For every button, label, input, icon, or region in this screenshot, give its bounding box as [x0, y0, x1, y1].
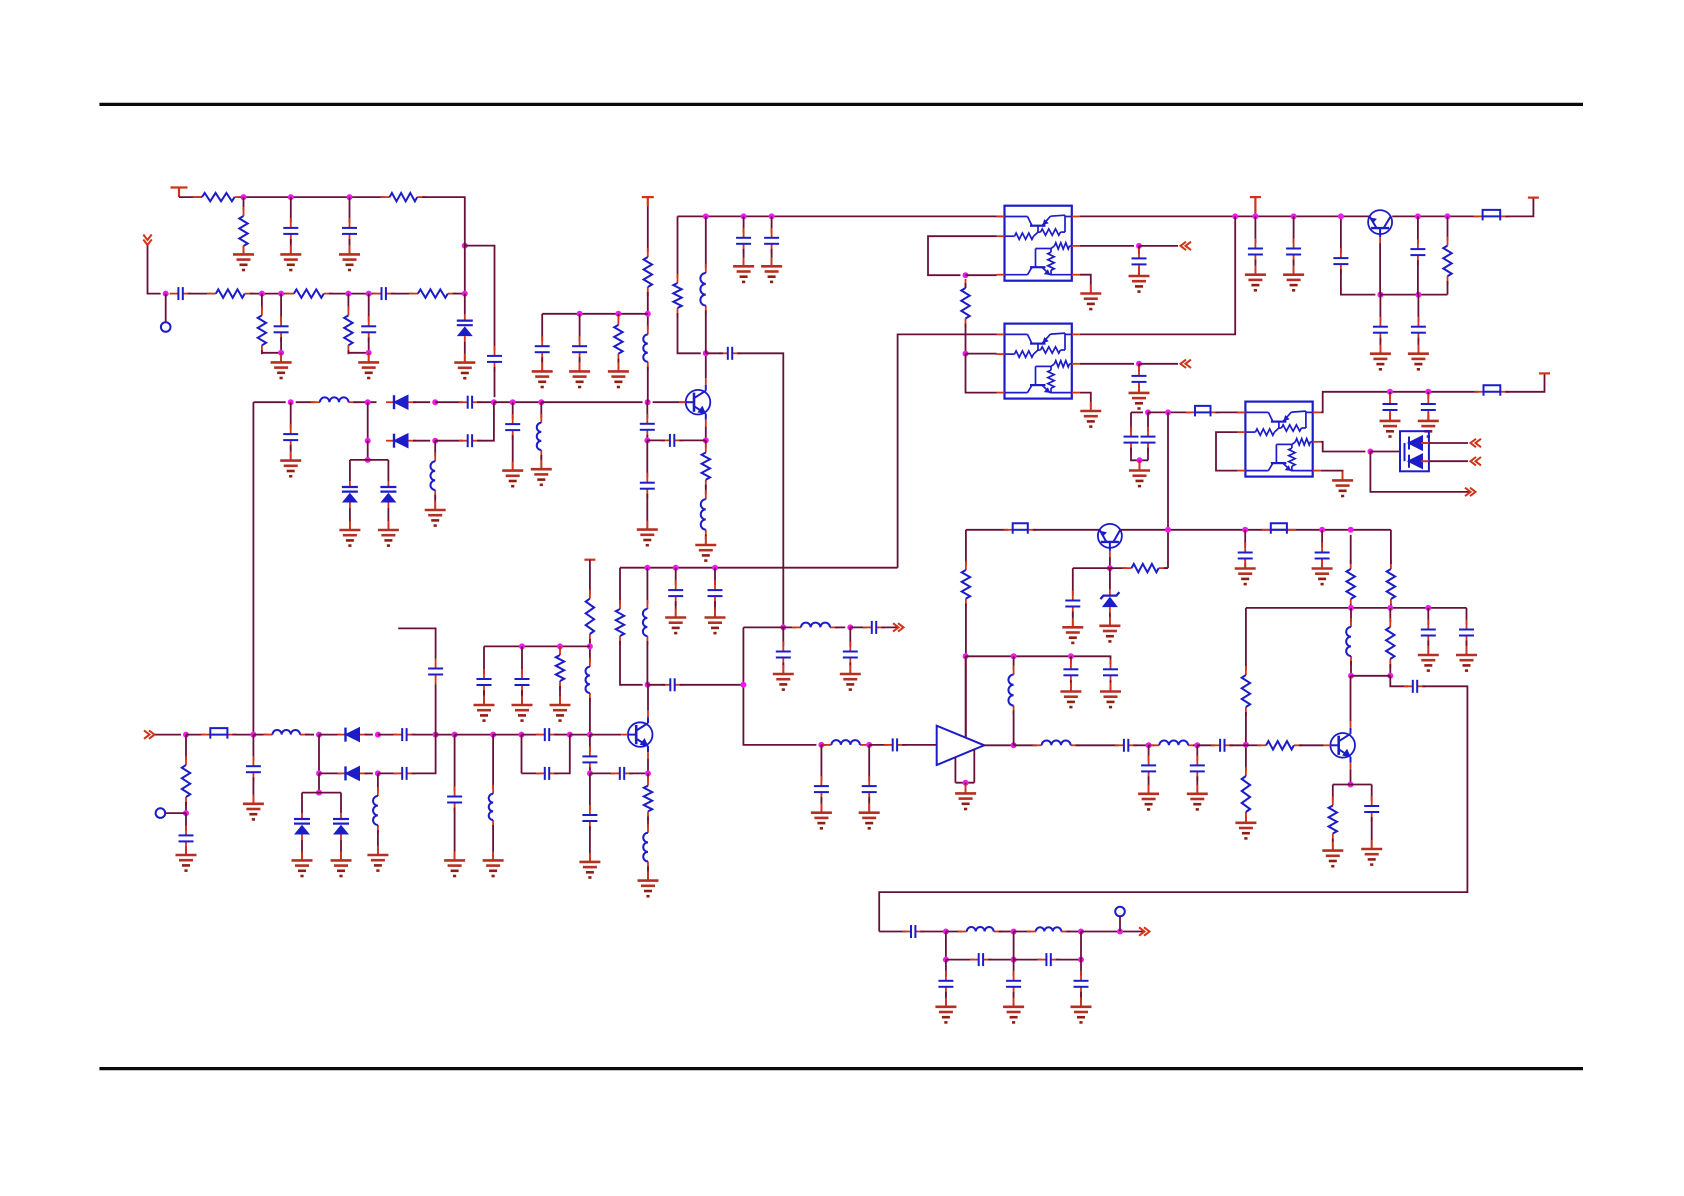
wire: [1321, 471, 1343, 481]
op-amp U4: [937, 726, 985, 765]
wire: [1429, 442, 1468, 444]
ground: [665, 609, 686, 634]
wire: [261, 294, 263, 311]
capacitor C48: [862, 776, 877, 802]
wire: [1254, 260, 1256, 275]
wire: [835, 626, 845, 628]
capacitor C29: [1141, 427, 1156, 453]
wire: [705, 440, 707, 447]
wire: [302, 792, 341, 794]
capacitor C17: [719, 347, 741, 360]
wire: [820, 797, 822, 813]
junction: [433, 732, 439, 738]
ground: [1408, 345, 1429, 370]
ground: [1100, 683, 1121, 708]
dual digital transistor U3: [1237, 402, 1320, 477]
capacitor C70: [1006, 971, 1021, 997]
capacitor C6: [274, 316, 289, 342]
wire: [1138, 387, 1140, 393]
wire: [965, 783, 967, 794]
wire: [965, 656, 967, 737]
resistor R23: [586, 590, 594, 643]
junction: [1011, 929, 1017, 935]
wire: [280, 294, 282, 322]
capacitor C4: [170, 287, 192, 300]
capacitor C33: [1238, 543, 1253, 569]
wire: [492, 735, 494, 789]
wire: [1013, 656, 1015, 669]
capacitor C45: [662, 678, 684, 691]
wire: [620, 641, 643, 685]
ground: [512, 696, 533, 721]
wire collector Q5: [647, 685, 649, 711]
off-page connector: [1181, 360, 1192, 368]
ground: [773, 665, 794, 690]
capacitor C18: [736, 228, 751, 254]
wire: [243, 197, 245, 211]
wire: [349, 508, 351, 530]
junction: [1232, 213, 1238, 219]
wire: [705, 485, 707, 495]
wire: [705, 535, 707, 545]
capacitor C16: [572, 336, 587, 362]
wire collector Q2: [1379, 243, 1381, 295]
wire: [1293, 260, 1295, 275]
capacitor C39: [708, 580, 723, 606]
varactor D5: [380, 481, 396, 508]
junction: [316, 732, 322, 738]
junction: [432, 438, 438, 444]
ground: [1062, 618, 1083, 643]
wire: [1417, 295, 1419, 322]
wire: [966, 353, 997, 355]
ground: [695, 536, 716, 561]
ground: [569, 362, 590, 387]
junction: [538, 399, 544, 405]
wire: [368, 337, 370, 353]
wire: [589, 826, 591, 862]
junction: [288, 399, 294, 405]
capacitor C13: [661, 434, 683, 447]
junction: [163, 291, 169, 297]
wire: [1131, 411, 1143, 413]
resistor R25: [1257, 741, 1303, 749]
wire: [1147, 412, 1149, 431]
wire: [629, 772, 648, 774]
wire bus: [1321, 392, 1479, 413]
wire: [559, 686, 561, 705]
ground: [1312, 560, 1333, 585]
inductor L11: [822, 740, 869, 745]
diode D8: [338, 728, 368, 742]
wire: [522, 772, 540, 774]
power flag VCC5: [1539, 372, 1550, 374]
wire: [378, 772, 397, 774]
ground: [243, 795, 264, 820]
fuse F4: [1004, 523, 1037, 534]
wire: [1014, 931, 1031, 933]
wire: [988, 959, 1014, 961]
wire: [1245, 712, 1247, 771]
wire: [165, 812, 186, 814]
ground: [811, 804, 832, 829]
junction: [1425, 389, 1431, 395]
wire: [1106, 656, 1111, 664]
wire: [1417, 260, 1419, 295]
ground: [733, 257, 754, 282]
wire: [435, 685, 437, 735]
junction: [1377, 292, 1383, 298]
ground: [1080, 285, 1101, 310]
resistor R1: [193, 193, 244, 201]
wire: [1196, 776, 1198, 793]
wire: [570, 734, 590, 736]
wire: [391, 293, 413, 295]
junction: [183, 810, 189, 816]
capacitor C49: [1115, 739, 1137, 752]
wire: [250, 293, 289, 295]
wire: [455, 734, 494, 736]
black title-block border bottom: [99, 1067, 1583, 1070]
resistor R9: [702, 444, 710, 489]
junction: [241, 194, 247, 200]
wire: [1379, 295, 1381, 322]
capacitor C42: [863, 621, 885, 634]
wire: [589, 698, 591, 735]
junction: [278, 350, 284, 356]
wire: [1133, 744, 1148, 746]
wire: [290, 197, 292, 223]
wire: [1070, 656, 1072, 664]
wire collector Q4: [1350, 676, 1352, 722]
ground: [705, 609, 726, 634]
ground: [367, 846, 388, 871]
wire: [706, 352, 723, 354]
wire: [165, 294, 167, 323]
capacitor C57: [536, 728, 558, 741]
capacitor C69: [938, 971, 953, 997]
wire: [946, 959, 974, 961]
junction: [1078, 957, 1084, 963]
wire: [232, 734, 253, 736]
junction: [1117, 929, 1123, 935]
wire: [554, 735, 570, 774]
capacitor C68: [1038, 953, 1060, 966]
wire: [350, 459, 389, 461]
wire: [253, 734, 267, 736]
wire: [945, 932, 947, 960]
wire: [329, 293, 377, 295]
wire: [1244, 564, 1246, 569]
wire: [1193, 744, 1197, 746]
ground: [1235, 560, 1256, 585]
wire: [253, 401, 285, 403]
resistor R17: [1347, 560, 1355, 608]
wire: [185, 802, 187, 813]
wire: [1299, 744, 1324, 746]
wire: [1080, 992, 1082, 1007]
wire: [240, 196, 385, 198]
inductor L1: [311, 397, 358, 402]
wire: [464, 342, 466, 363]
wire: [378, 734, 397, 736]
wire: [705, 216, 707, 268]
wire: [898, 334, 997, 567]
capacitor C51: [1141, 755, 1156, 781]
varactor D11: [333, 813, 349, 840]
junction: [703, 437, 709, 443]
junction: [365, 457, 371, 463]
diode D2: [386, 395, 416, 409]
capacitor C24: [1333, 248, 1348, 274]
wire: [512, 402, 514, 419]
junction: [1425, 605, 1431, 611]
wire: [301, 793, 303, 813]
wire: [646, 494, 648, 530]
wire: [1380, 294, 1447, 296]
ground: [331, 851, 352, 876]
capacitor C5: [373, 287, 395, 300]
capacitor C11: [505, 414, 520, 440]
wire vertical: [1167, 412, 1169, 568]
inductor L20: [1027, 927, 1071, 931]
wire: [1056, 959, 1081, 961]
wire: [1013, 992, 1015, 1007]
junction: [345, 291, 351, 297]
wire: [296, 401, 315, 403]
wire: [1072, 612, 1074, 628]
wire: [1389, 415, 1391, 421]
ground: [233, 245, 254, 270]
wire: [1073, 567, 1127, 569]
resistor R12: [673, 274, 681, 317]
transistor Q4: [1324, 721, 1355, 769]
wire: [1333, 784, 1372, 786]
junction: [703, 350, 709, 356]
ground: [358, 353, 379, 378]
wire: [999, 931, 1014, 933]
resistor R28: [644, 777, 652, 821]
wire: [319, 772, 341, 774]
off-page connector: [893, 623, 904, 631]
junction: [943, 957, 949, 963]
inductor L5: [643, 326, 648, 371]
junction: [587, 732, 593, 738]
wire: [1164, 567, 1168, 569]
junction: [587, 643, 593, 649]
ground: [339, 245, 360, 270]
ground: [840, 665, 861, 690]
black title-block border top: [99, 103, 1583, 106]
wire: [1216, 432, 1237, 471]
off-page connector: [1465, 488, 1476, 496]
wire: [714, 568, 716, 586]
junction: [1145, 409, 1151, 415]
junction: [644, 565, 650, 571]
wire row: [542, 313, 648, 315]
power flag VCC2: [642, 197, 654, 206]
capacitor C9: [283, 424, 298, 450]
fuse F3: [1475, 385, 1510, 396]
junction: [673, 565, 679, 571]
ground: [955, 784, 976, 809]
wire: [365, 734, 373, 736]
resistor R24: [556, 646, 564, 690]
junction: [645, 770, 651, 776]
wire: [680, 685, 817, 745]
wire: [1390, 530, 1392, 564]
wire: [280, 337, 282, 353]
wire: [868, 797, 870, 813]
off-page connector: [1181, 242, 1192, 250]
wire: [559, 646, 561, 650]
inductor L8: [643, 600, 648, 645]
junction: [741, 213, 747, 219]
wire: [647, 439, 665, 441]
junction: [519, 732, 525, 738]
capacitor C30: [1383, 394, 1398, 420]
wire: [1080, 363, 1134, 365]
capacitor C14: [640, 473, 655, 499]
off-page connector input: [144, 730, 155, 738]
junction: [567, 732, 573, 738]
wire: [1080, 216, 1235, 334]
capacitor C47: [814, 776, 829, 802]
power flag VCC4: [1528, 197, 1539, 199]
capacitor C31: [1421, 394, 1436, 420]
capacitor C63: [582, 746, 597, 772]
wire: [494, 401, 541, 403]
ground: [1071, 998, 1092, 1023]
junction: [316, 790, 322, 796]
wire: [1148, 411, 1190, 413]
junction: [703, 213, 709, 219]
resistor R26: [1329, 797, 1337, 843]
wire: [1131, 448, 1148, 461]
wire: [589, 773, 591, 810]
wire: [1321, 442, 1366, 452]
junction: [183, 732, 189, 738]
wire: [1350, 661, 1352, 676]
inductor L18: [643, 824, 648, 871]
wire: [1149, 744, 1155, 746]
wire: [377, 830, 379, 855]
wire: [646, 568, 648, 604]
junction: [645, 311, 651, 317]
ground: [531, 460, 552, 485]
ground: [378, 521, 399, 546]
wire collector Q3: [1109, 557, 1111, 568]
fuse F6: [201, 728, 236, 739]
capacitor C55: [1364, 796, 1379, 822]
wire: [435, 401, 463, 403]
wire emitter Q4: [1350, 769, 1352, 784]
junction: [432, 399, 438, 405]
wire: [377, 773, 379, 791]
wire: [869, 744, 888, 746]
capacitor C7: [361, 316, 376, 342]
resistor R27: [182, 756, 190, 806]
wire long vertical feed: [252, 402, 254, 734]
wire: [492, 825, 494, 860]
wire: [413, 401, 430, 403]
resistor R7: [258, 306, 266, 354]
wire: [920, 931, 946, 933]
wire: [1332, 839, 1334, 851]
ground: [1322, 842, 1343, 867]
junction: [1068, 653, 1074, 659]
capacitor C8: [459, 396, 481, 409]
wire: [252, 777, 254, 804]
wire: [522, 734, 540, 736]
fuse F2: [1186, 406, 1220, 417]
junction: [847, 624, 853, 630]
ground: [1245, 266, 1266, 291]
wire: [1379, 338, 1381, 354]
capacitor C50: [1211, 739, 1233, 752]
wire: [679, 439, 706, 441]
ground: [638, 872, 659, 897]
wire: [1447, 281, 1449, 295]
junction: [1291, 213, 1297, 219]
capacitor C72: [428, 659, 443, 685]
wire: [340, 840, 342, 860]
ground: [1370, 345, 1391, 370]
ground: [1380, 412, 1401, 437]
wire: [1245, 608, 1247, 670]
capacitor C27: [1411, 317, 1426, 343]
wire: [1216, 411, 1246, 413]
wire: [387, 508, 389, 530]
wire: [290, 445, 292, 461]
capacitor C23: [1132, 366, 1147, 392]
capacitor C43: [776, 642, 791, 668]
capacitor C28: [1124, 427, 1139, 453]
wire: [589, 560, 591, 594]
wire: [743, 216, 745, 232]
junction: [366, 350, 372, 356]
junction: [1165, 409, 1171, 415]
wire: [188, 293, 211, 295]
junction: [1387, 605, 1393, 611]
wire: [483, 646, 485, 674]
off-page connector output: [1139, 927, 1150, 935]
wire: [554, 734, 570, 736]
wire: [1350, 608, 1352, 622]
dual digital transistor U1: [997, 206, 1080, 281]
wire: [1033, 529, 1100, 531]
junction: [1011, 742, 1017, 748]
wire: [280, 353, 282, 363]
wire: [1370, 452, 1470, 492]
wire: [647, 866, 649, 880]
resistor R22: [616, 600, 624, 645]
wire: [483, 690, 485, 705]
transistor Q3: [1098, 524, 1122, 557]
resistor R18: [1387, 560, 1395, 608]
wire: [1230, 744, 1246, 746]
wire: [185, 735, 187, 760]
wire: [368, 353, 370, 363]
wire: [349, 197, 351, 223]
wire: [541, 314, 543, 342]
wire: [541, 357, 543, 371]
capacitor C34: [1315, 543, 1330, 569]
ground: [1456, 646, 1477, 671]
wire: [349, 460, 351, 481]
junction: [818, 742, 824, 748]
wire: [647, 292, 649, 330]
